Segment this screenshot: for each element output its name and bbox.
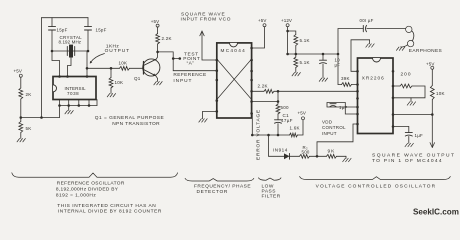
wire to 1uF output cap [393,127,409,133]
wire bus to ground [68,106,70,111]
svg-text:INPUT: INPUT [173,78,192,84]
wire MC4044 to 500 [252,101,278,103]
svg-text:OUTPUT: OUTPUT [105,48,130,54]
wire Q1 collector [156,52,157,59]
pin dot MC4044 R4 [250,90,253,93]
label 8192000Hz divided [56,187,119,193]
pin dot MC4044 R0 [250,47,253,50]
svg-text:+5V: +5V [426,61,434,66]
brace low pass filter [259,178,282,180]
svg-text:10K: 10K [436,91,445,96]
svg-text:SQUARE WAVE: SQUARE WAVE [181,11,226,17]
transistor Q1 [143,59,160,76]
svg-text:2.2K: 2.2K [258,84,268,89]
junction bus 3 [78,104,81,107]
svg-text:1.6K: 1.6K [290,125,300,130]
capacitor 1uF timing [330,104,336,107]
wire 5.1K to ground [295,68,297,73]
wire square wave output arrow [430,115,435,148]
junction 500 top [277,100,280,103]
label 200 [401,72,412,78]
label 15pF right [96,28,107,33]
junction test point branch [172,57,175,60]
wire 1.6K to +5V [298,120,304,135]
junction 10uF tap [322,53,325,56]
label EARPHONES [409,48,442,54]
resistor 10K series [120,66,130,70]
resistor 500 filter [276,104,280,114]
power +5V terminal MC4044 [258,18,266,27]
svg-text:5K: 5K [26,126,32,131]
svg-text:DETECTOR: DETECTOR [197,189,229,195]
pin dot MC4044 R2 [250,70,253,73]
label 8192 eq 1000Hz [56,192,96,198]
junction C1 rail [277,134,280,137]
wire bypass loop pin1 [351,40,370,72]
label FREQUENCY PHASE [194,183,251,189]
resistor 10K output [430,86,434,100]
ground earphones [396,47,404,50]
wire timing long [274,90,358,92]
label MC4044 [221,48,247,53]
label 9K [328,148,336,154]
wire 1kHz output [87,67,120,69]
svg-text:VDD: VDD [322,119,333,124]
pin stub 7038 bottom 1 [59,100,61,106]
ic U1 INTERSIL 7038 [53,77,96,100]
wire +5V to MC4044 [252,27,265,48]
label CRYSTAL [60,35,83,40]
wire bias rail [288,53,338,55]
label REFERENCE OSCILLATOR [57,181,125,187]
brace reference oscillator [12,173,178,177]
svg-text:8.192 MHz: 8.192 MHz [59,40,82,45]
label 10K output [436,91,445,96]
svg-text:XR2206: XR2206 [362,76,385,81]
svg-text:10K: 10K [119,60,128,65]
label FILTER [262,193,281,199]
note internal divide [58,209,162,215]
wire trunk to coupling cap [338,28,363,30]
svg-text:8,192,000Hz DIVIDED BY: 8,192,000Hz DIVIDED BY [56,187,119,193]
pin stub 7038 bottom 4 [88,100,90,106]
wire error rail [252,134,289,136]
svg-text:CONTROL: CONTROL [322,125,346,130]
pin stub 7038 bottom 3 [78,100,80,106]
svg-text:1µF: 1µF [339,105,347,110]
pin dot MC4044 L1 [216,59,219,62]
wire node to 5K [20,118,22,122]
label VDD CONTROL INPUT [322,119,346,136]
ground bypass [366,44,374,47]
wire test point stub [173,58,180,60]
svg-text:NPN TRANSISTOR: NPN TRANSISTOR [112,121,160,127]
resistor 39K [338,83,358,87]
label REFERENCE INPUT [173,72,206,84]
ground below 5K [17,139,25,142]
resistor 5K [19,122,23,133]
label DETECTOR [197,189,229,195]
svg-text:2K: 2K [26,92,32,97]
ground bias divider [292,73,300,76]
pin dot XR2206 L7 [356,123,359,126]
svg-text:5.1K: 5.1K [300,60,310,65]
wire cap to earphones [367,28,406,30]
label 1uF timing [339,105,347,110]
svg-text:+12V: +12V [281,18,292,23]
junction divider node [20,116,23,119]
label 1uF output [415,133,423,138]
wire +5V to 10K [431,69,433,85]
pin dot 7038 top 2 [66,75,69,78]
label 47uF [281,118,293,123]
svg-text:+5V: +5V [298,110,306,115]
svg-text:VOLTAGE CONTROLLED OSCILLATOR: VOLTAGE CONTROLLED OSCILLATOR [316,184,437,190]
power +5V terminal Q1 [151,19,159,27]
label R2 500 [302,149,310,154]
resistor 2.2K collector [156,34,160,45]
svg-text:INPUT FROM VCO: INPUT FROM VCO [181,17,232,23]
capacitor C1 47uF [275,120,282,135]
junction rail at +12V line [286,53,289,56]
wire oscillator loop top rail [42,17,89,19]
pin dot MC4044 R3 [250,79,253,82]
power +5V terminal filter [298,110,306,119]
label 8.192MHz [59,40,82,45]
svg-text:8192 = 1,000Hz: 8192 = 1,000Hz [56,192,96,198]
earphone jack lower [407,40,413,46]
label XR2206 [362,76,385,81]
ground 200 [407,102,415,105]
svg-text:39K: 39K [341,76,350,81]
junction error rail left [251,134,254,137]
svg-text:INTERSIL: INTERSIL [65,86,86,91]
pin dot MC4044 R6 [250,112,253,115]
junction collector node [156,51,159,54]
pin dot 7038 top 3 [86,75,89,78]
crystal Y1 [67,45,74,58]
wire bus to divider rail [59,106,61,118]
ic U3 XR2206 [358,58,394,134]
wire divider node rail [21,117,60,119]
pin dot 7038 top 1 [58,75,61,78]
power +5V terminal output [426,61,434,69]
pin dot MC4044 R5 [250,100,253,103]
wire +5V to 2.2K [157,27,159,34]
svg-text:SQUARE WAVE OUTPUT: SQUARE WAVE OUTPUT [372,153,455,159]
label 2.2K collector [162,36,172,41]
resistor R2 500 [300,154,310,158]
junction error tap [267,134,270,137]
wire crystal right to 7038 pin [86,51,88,77]
pin dot XR2206 L2 [356,83,359,86]
pin dot XR2206 R4 [392,113,395,116]
svg-text:THIS INTEGRATED CIRCUIT HAS AN: THIS INTEGRATED CIRCUIT HAS AN [57,203,156,209]
note integrated circuit [57,203,156,209]
capacitor 15pF right [85,18,92,51]
junction bus 1 [58,104,61,107]
junction bus 2 [67,104,70,107]
pin dot MC4044 L2 [216,69,219,72]
label LOW [262,183,274,189]
svg-text:+5V: +5V [151,19,159,24]
capacitor 1uF output [405,133,412,136]
junction base divider [110,67,113,70]
capacitor 15pF left [49,18,56,51]
svg-text:MC4044: MC4044 [221,48,247,53]
wire 5K to ground [20,133,22,139]
resistor 1.6K [290,133,298,137]
wire 10K to ground [110,88,112,94]
wire MC4044 pin to error rail [251,113,254,135]
brace phase detector [185,178,254,181]
pin dot XR2206 R2 [392,85,395,88]
label 39K [341,76,350,81]
earphone jack upper [406,26,412,32]
ic U2 MC4044 [217,43,252,118]
wire collector to test point [158,52,174,59]
wire 2K to node [20,99,22,118]
ground 10uF [319,78,327,81]
svg-text:15pF: 15pF [57,28,68,33]
resistor 10K vertical [109,68,113,88]
wire 500 to C1 [277,114,279,120]
label INTERSIL [65,86,86,91]
junction 500 branch [277,90,280,93]
pin dot MC4044 R1 [250,59,253,62]
symbol phase detector X [217,59,252,100]
wire 9K to ground [337,156,347,158]
label ERROR VOLTAGE vertical [256,109,262,160]
label C1 [283,113,290,118]
wire Q1 emitter to ground [156,76,158,82]
resistor 5.1K upper [294,35,298,46]
label 5.1K upper [300,38,310,43]
label 10K vertical [115,80,124,85]
wire oscillator loop left vertical [41,18,43,118]
label 2.2K timing [258,84,268,89]
svg-text:“A”: “A” [187,61,195,67]
wire crystal left to 7038 pin [52,51,60,77]
wire 10K to Q1 base [130,67,144,69]
svg-text:200: 200 [401,72,412,78]
node test point A terminal [179,57,182,60]
svg-text:FILTER: FILTER [262,193,281,199]
svg-text:Q1: Q1 [134,76,141,81]
junction trunk [337,53,340,56]
wire R2 to node [310,155,318,157]
pin dot XR2206 L3 [356,90,359,93]
label 5.1K lower [300,60,310,65]
wire 5.1K to tap [295,46,297,58]
note Q1 general purpose [95,115,164,121]
label SQUARE WAVE OUTPUT [372,153,455,159]
label 10uF [335,57,341,67]
svg-text:5.1K: 5.1K [300,38,310,43]
label 500 filter [281,105,290,110]
resistor 9K [317,154,337,158]
label Q1 [134,76,141,81]
svg-text:REFERENCE OSCILLATOR: REFERENCE OSCILLATOR [57,181,125,187]
junction rail / osc loop [40,116,43,119]
svg-text:FREQUENCY/ PHASE: FREQUENCY/ PHASE [194,183,251,189]
label 5K [26,126,32,131]
junction +12V branch [286,30,289,33]
pin dot MC4044 L5 [216,110,219,113]
wire timing cap loop [327,103,358,115]
wire branch to divider [288,31,296,35]
svg-text:47µF: 47µF [281,118,293,123]
wire earphone curve [412,31,414,41]
diode D1 IN914 [284,153,290,159]
wire 10K to output node [431,100,433,115]
wire vdd control [317,124,358,156]
wire earphone to ground [401,45,408,47]
ground 10K [107,94,115,97]
junction bias tap [295,53,298,56]
label 2K [26,92,32,97]
wire reference input [173,59,217,71]
pin dot MC4044 L3 [216,79,219,82]
pin dot XR2206 L1 [356,70,359,73]
ground 7038 [65,111,73,114]
svg-text:SeekIC.com: SeekIC.com [413,208,459,217]
pin dot XR2206 L5 [356,106,359,109]
svg-text:10K: 10K [115,80,124,85]
junction crystal right [87,50,90,53]
power +12V terminal [281,18,292,27]
junction vdd node [316,155,319,158]
wire coupling trunk [337,29,339,85]
wire crystal case to 7038 pin [68,58,72,77]
junction crystal left [51,50,54,53]
resistor 2K [19,88,23,99]
svg-text:500: 500 [302,149,310,154]
pin dot XR2206 R1 [392,70,395,73]
ground MC4044 left [199,119,207,122]
svg-text:µF: µF [335,62,341,67]
leader arrow to 1kHz node [90,54,105,64]
wire 7038 bottom bus [60,100,98,106]
label PASS [262,189,276,195]
wire +12V down [287,27,289,54]
wire 2.2K to collector node [157,44,159,52]
svg-text:500: 500 [281,105,290,110]
wire 200 ground stub [410,98,412,102]
svg-text:EARPHONES: EARPHONES [409,48,442,54]
wire square wave input [200,31,217,60]
junction bus 4 [88,104,91,107]
svg-text:IN914: IN914 [273,147,288,152]
ground 9K [343,158,351,161]
svg-text:+5V: +5V [258,18,266,23]
pin dot XR2206 L6 [356,113,359,116]
wire error to diode [269,135,285,156]
label R2 [303,145,308,150]
svg-text:9K: 9K [328,148,336,154]
ground Q1 emitter [154,82,162,85]
label VOLTAGE CONTROLLED OSCILLATOR [316,184,437,190]
svg-text:ERROR VOLTAGE: ERROR VOLTAGE [256,109,262,160]
pin dot MC4044 L4 [216,99,219,102]
svg-text:2.2K: 2.2K [162,36,172,41]
wire diode to R2 [290,155,300,157]
power +5V terminal (left bias divider) [14,69,23,78]
junction output node [431,113,434,116]
pin dot XR2206 R5 [392,125,395,128]
brace vco [300,177,451,180]
svg-text:TO PIN 1 OF MC4044: TO PIN 1 OF MC4044 [372,158,443,164]
junction 1kHz tap [86,67,89,70]
label 1KHz OUTPUT [105,43,130,54]
label 7038 [67,91,79,96]
capacitor 10uF [320,54,327,78]
wire 500 branch [277,91,279,104]
svg-text:REFERENCE: REFERENCE [173,72,206,78]
label TO PIN 1 OF MC4044 [372,158,443,164]
svg-text:15pF: 15pF [96,28,107,33]
label 10K series [119,60,128,65]
wire crystal node [52,50,88,52]
label SQUARE WAVE INPUT FROM VCO [181,11,232,22]
wire cap to ground [408,136,410,143]
svg-text:LOW: LOW [262,183,274,189]
note NPN transistor [112,121,160,127]
label TEST POINT A [183,51,200,66]
label IN914 [273,147,288,152]
svg-text:1µF: 1µF [415,133,423,138]
wire +5V to 2K [20,77,22,88]
resistor 200 loop [393,84,425,98]
watermark SeekIC.com [413,208,459,217]
svg-text:INPUT: INPUT [322,131,337,136]
svg-text:7038: 7038 [67,91,79,96]
wire XR2206 to output node [393,114,432,116]
capacitor 0.01uF [363,25,366,31]
label 15pF left [57,28,68,33]
resistor 5.1K lower [294,57,298,68]
pin dot XR2206 L4 [356,97,359,100]
resistor 2.2K timing [252,89,274,93]
svg-text:00I µF: 00I µF [360,18,374,23]
svg-text:+5V: +5V [14,69,22,74]
svg-text:Q1 = GENERAL PURPOSE: Q1 = GENERAL PURPOSE [95,115,164,121]
label 1.6K [290,125,300,130]
wire MC4044 to ground left [203,111,217,118]
label 001uF [360,18,374,23]
svg-text:INTERNAL DIVIDE BY 8192 COUNTE: INTERNAL DIVIDE BY 8192 COUNTER [58,209,162,215]
ground 1uF output [405,143,413,146]
pin stub 7038 bottom 2 [68,100,70,106]
pin dot XR2206 R3 [392,97,395,100]
